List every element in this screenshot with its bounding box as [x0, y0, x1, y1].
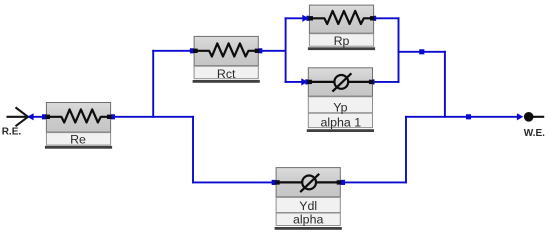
svg-text:alpha 1: alpha 1 [320, 115, 361, 129]
svg-text:W.E.: W.E. [524, 128, 545, 139]
svg-text:alpha: alpha [293, 213, 323, 227]
svg-text:Yp: Yp [333, 100, 347, 114]
svg-text:Ydl: Ydl [299, 199, 317, 213]
svg-text:Rp: Rp [334, 34, 350, 48]
svg-text:Rct: Rct [217, 67, 236, 81]
svg-text:Re: Re [70, 132, 86, 146]
svg-text:R.E.: R.E. [2, 127, 22, 138]
